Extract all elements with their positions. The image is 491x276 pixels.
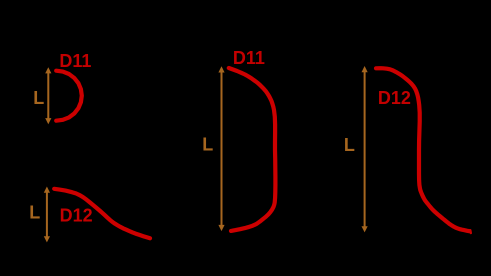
figure 1: dimension arrow L (top-left)	[45, 67, 51, 124]
svg-text:L: L	[344, 135, 355, 155]
figure 2: dimension arrow L (bottom-left)	[44, 187, 50, 243]
figure 3: dimension arrow L (middle tall)	[218, 66, 224, 231]
figure 1: curve D11 (half-circle arc)	[56, 71, 82, 121]
svg-text:L: L	[202, 134, 213, 154]
figure 4: dimension arrow L (right tall)	[362, 66, 368, 232]
figure 3: curve D11 (tall D profile)	[229, 68, 276, 231]
figure 2: curve D12 (sigmoid)	[54, 189, 150, 239]
svg-text:D11: D11	[59, 51, 91, 71]
svg-text:D12: D12	[378, 88, 411, 108]
svg-text:D12: D12	[60, 205, 93, 225]
svg-text:L: L	[33, 88, 44, 108]
svg-text:L: L	[29, 203, 40, 223]
figure 4: curve D12 (tall S profile)	[376, 68, 469, 231]
figure 4: end tick of curve D12	[469, 230, 472, 233]
svg-text:D11: D11	[233, 48, 265, 68]
